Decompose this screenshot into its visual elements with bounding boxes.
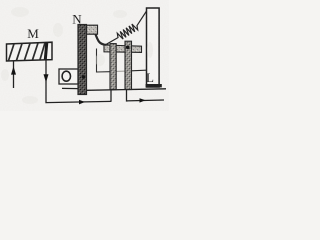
paper grain [0,0,169,111]
armature bar N [78,25,87,95]
coil M [7,42,53,61]
wire between posts (faint) [116,70,125,72]
hook link [96,34,109,45]
flag on bar N [87,25,98,34]
scan smudges [1,7,153,104]
left lead wire with up arrow [11,61,16,88]
right post [125,41,132,89]
spring to wall L [107,10,148,44]
pivot dot on right post [126,46,130,50]
base line [62,88,166,90]
hanger wire [97,49,111,73]
left post [110,44,116,90]
pivot box O [59,69,78,84]
bottom wire right with arrow [127,90,165,103]
wire from right post to wall [132,69,147,72]
right lead wire with down arrow, bottom wire left with arrow [44,60,112,104]
wall L [146,8,162,87]
pivot dot on bar N [82,75,85,78]
beam [104,45,142,52]
wire from left post bottom [110,90,112,102]
